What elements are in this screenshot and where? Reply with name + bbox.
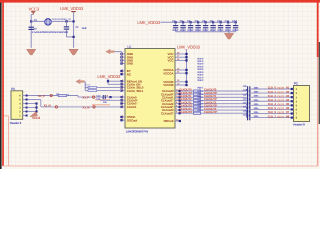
svg-text:R21 0: R21 0 [197,90,203,93]
pin stub CLKin1* [122,103,126,105]
svg-text:VCC3: VCC3 [29,7,40,12]
ground arrow (SEL pulldown) [76,79,85,83]
wire to capacitor C3 [66,21,68,27]
svg-text:Header 6: Header 6 [10,121,22,125]
junction header pin [291,100,293,102]
capacitor C24 (series) [247,103,249,108]
svg-text:R23 0: R23 0 [197,96,203,99]
wire CLKOUT1 to header [250,96,294,98]
resistor R25 [193,106,200,108]
resistor R7 [85,90,88,92]
wire C3 bottom jog [67,36,74,38]
ferrite bead FB1 [45,19,51,25]
ground at LMK_VDD33 filter [69,49,78,55]
svg-text:100n: 100n [254,111,259,114]
wire jog [246,96,248,98]
pin stub GND [122,63,126,65]
junction supply pin [185,53,187,55]
svg-text:100n: 100n [254,107,259,110]
connector P1 body [11,91,23,120]
resistor R6 [85,86,88,88]
junction header pin [291,96,293,98]
wire jog [246,113,248,117]
capacitor C7 [197,21,199,23]
wire CLKOUT0* from IC [175,93,246,95]
svg-text:X1_N: X1_N [44,103,51,107]
junction P1 tie 3 [35,110,37,112]
svg-text:0Zohm/100MHz_A0: 0Zohm/100MHz_A0 [52,18,72,21]
wire CLKOUT2 from IC [175,103,246,105]
junction P1 tie 1 [35,102,37,104]
svg-text:CLK_7: CLK_7 [268,114,277,118]
wire supply pin stub [175,69,186,71]
pin stub CLKin1 [122,106,126,108]
pin stub NC [122,73,126,75]
wire CLKin_EN [108,83,122,85]
wire SEL to pin [97,86,122,88]
svg-text:R38 0: R38 0 [198,79,204,82]
svg-text:R22 0: R22 0 [197,93,203,96]
capacitor C3 [64,26,69,28]
svg-text:GND: GND [127,62,134,66]
capacitor C5 [182,21,184,23]
wire cap bank bottom bus [176,31,236,33]
pin stub GND [122,56,126,58]
border: workspace edge left [0,0,2,169]
wire GND pins tie [121,52,123,64]
wire jog [246,89,248,91]
svg-text:CLKout3*: CLKout3* [161,111,174,115]
capacitor C23 (series) [247,99,249,104]
junction supply pin [185,81,187,83]
svg-text:H8: H8 [286,114,290,118]
capacitor C9 [212,21,214,23]
svg-text:R7 10K: R7 10K [85,87,91,90]
capacitor C22 (series) [247,94,249,99]
svg-text:R27 0: R27 0 [197,109,203,112]
capacitor C11 [227,21,229,23]
power port VCC3 (P1) [30,112,38,117]
capacitor C20 (series) [247,86,249,91]
wire CLKOUT2* from IC [175,106,246,108]
resistor R22 [193,96,200,98]
wire IC supply vertical [186,50,188,85]
svg-text:R6 10K: R6 10K [85,84,91,87]
svg-text:100n: 100n [254,115,259,118]
pin stub CLKin0 [122,96,126,98]
wire CLKOUT3* from IC [175,112,246,114]
junction CLKin0 [109,96,111,98]
capacitor C10 [220,21,222,23]
junction header pin [291,112,293,114]
wire P1 VCC3 tie [27,103,36,105]
IC U2 LMK00304MTPW body [125,49,175,129]
svg-text:VCCOB: VCCOB [163,83,174,87]
wire CLKOUT2* to header [250,108,294,110]
pin stub CLKin_SEL0 [122,86,126,88]
error underline 2 [92,104,110,106]
svg-text:CLKOUT3*: CLKOUT3* [179,110,193,114]
junction P1 tie 2 [35,106,37,108]
resistor R21 [193,93,200,95]
wire CLKOUT1 from IC [175,96,246,98]
capacitor C4 [175,21,177,23]
junction header pin [291,88,293,90]
capacitor C21 (series) [247,90,249,95]
svg-text:X1_P: X1_P [38,94,45,98]
wire CLKOUT1* from IC [175,100,246,102]
junction supply pin [185,69,187,71]
resistor R20 [193,90,200,92]
ground at cap bank [228,32,230,34]
svg-text:Header 8: Header 8 [293,122,305,126]
wire supply pin stub [175,59,186,61]
svg-text:VCC: VCC [168,59,175,63]
pin stub CLKin0* [122,99,126,101]
border: red frame right [317,0,319,57]
svg-text:C11: C11 [225,20,230,23]
wire supply pin stub [175,53,186,55]
junction supply pin [185,56,187,58]
capacitor C2 [29,26,34,28]
svg-text:VCCOA: VCCOA [163,71,174,75]
wire CLKOUT0 from IC [175,90,246,92]
junction header pin [291,92,293,94]
pin stub CLKin_SEL1 [122,90,126,92]
wire LMK_VDD33 vertical [73,12,75,48]
junction supply pin [185,84,187,86]
svg-text:CLKOUT3*: CLKOUT3* [204,110,218,114]
svg-text:P1: P1 [11,87,15,91]
pin stub REFout_EN [122,80,126,82]
wire supply pin stub [175,56,186,58]
border: workspace edge right [319,42,320,124]
svg-text:10uF: 10uF [82,27,88,30]
border: red frame top [0,0,320,3]
resistor R24 [193,103,200,105]
resistor R27 [193,112,200,114]
svg-text:VCC3: VCC3 [32,116,40,120]
wire CLKOUT2 to header [250,104,294,106]
svg-text:REFout: REFout [164,119,174,123]
svg-text:C12: C12 [232,20,237,23]
pin stub REFout [175,120,180,122]
border: sheet inner bottom line [3,165,318,167]
capacitor C8 [205,21,207,23]
wire control VDD vertical [107,79,109,85]
resistor R23 [193,99,200,101]
wire CLKOUT3* to header [250,117,294,119]
svg-text:R26 0: R26 0 [197,106,203,109]
wire CLKOUT0* to header [250,92,294,94]
svg-text:100n: 100n [254,103,259,106]
svg-text:X1_N: X1_N [82,105,89,109]
svg-text:100n: 100n [254,99,259,102]
border: sheet inner vertical line [8,116,10,166]
wire CLKOUT0 to header [250,88,294,90]
junction supply pin [185,72,187,74]
wire jog [246,100,248,103]
wire supply pin stub [175,84,186,86]
border: red frame left [2,0,4,166]
junction LMK_VDD33/C3 jog [73,36,75,38]
svg-text:R20 0: R20 0 [197,87,203,90]
svg-text:LMK_VDD33: LMK_VDD33 [177,45,201,50]
svg-text:C10: C10 [217,20,222,23]
svg-text:100n: 100n [254,87,259,90]
ground at C2 [27,49,36,55]
wire X1_P from P1 pin 6 [27,95,78,97]
wire CLKOUT3 to header [250,113,294,115]
connector P2 body [294,86,310,122]
svg-text:R25 0: R25 0 [197,102,203,105]
wire REFout_EN [108,80,122,82]
svg-text:P2: P2 [294,82,298,86]
wire jog [246,104,248,106]
ground arrow (IC GND pins) [106,49,115,53]
wire jog [246,110,248,113]
junction header pin [291,104,293,106]
wire SEL pulldown vertical [84,82,86,91]
svg-text:OSCout: OSCout [127,118,137,122]
junction supply pin [185,59,187,61]
wire SEL to pin [97,90,122,92]
wire VCC3 vertical [30,15,32,48]
wire X1_N from P1 pin 5 [27,99,40,101]
pin stub CLKin_EN [122,83,126,85]
wire CLKOUT1* to header [250,100,294,102]
svg-text:100n: 100n [254,91,259,94]
svg-text:R24 0: R24 0 [197,99,203,102]
capacitor C27 (series) [247,115,249,120]
svg-text:100n: 100n [254,95,259,98]
svg-text:LMK_VDD33: LMK_VDD33 [60,6,84,11]
wire jog [246,93,248,94]
wire CLKOUT3 from IC [175,109,246,111]
pin stub OSCout [122,119,126,121]
junction header pin [291,117,293,119]
capacitor C6 [190,21,192,23]
pin stub OSCin [122,116,126,118]
resistor R26 [193,109,200,111]
wire VCC3 to bead [31,20,45,22]
pin stub GND [122,59,126,61]
svg-text:LMK00304MTPW: LMK00304MTPW [126,130,149,134]
junction control [107,80,109,82]
svg-text:U2: U2 [127,45,131,49]
junction bead/C3 [65,20,67,22]
pin stub EP [122,70,126,72]
wire supply pin stub [175,81,186,83]
svg-text:LMK_VDD33: LMK_VDD33 [137,20,161,25]
capacitor C25 (series) [247,107,249,112]
capacitor C26 (series) [247,111,249,116]
pin stub GND [122,53,126,55]
capacitor C12 [235,21,237,23]
wire cap bank bus [161,21,238,23]
junction header pin [291,108,293,110]
wire supply pin stub [175,72,186,74]
svg-text:4.7uF/6.3V/0603 NP/100nF/16V/0: 4.7uF/6.3V/0603 NP/100nF/16V/0402 [32,31,69,34]
wire jog [246,107,248,110]
sheet background [0,0,320,169]
svg-text:CLKin1: CLKin1 [127,105,137,109]
junction at VCC3/bead [30,20,32,22]
svg-text:OUT7: OUT7 [277,115,284,119]
error underline [95,99,110,101]
svg-text:CLKin_SEL1: CLKin_SEL1 [127,89,144,93]
junction LMK_VDD33/bead wire [73,20,75,22]
wire bead to LMK_VDD33 [51,20,73,22]
svg-text:LMK_VDD33: LMK_VDD33 [97,74,121,79]
svg-text:X1_P: X1_P [82,96,89,100]
wire CLKin0* stub [100,99,122,101]
